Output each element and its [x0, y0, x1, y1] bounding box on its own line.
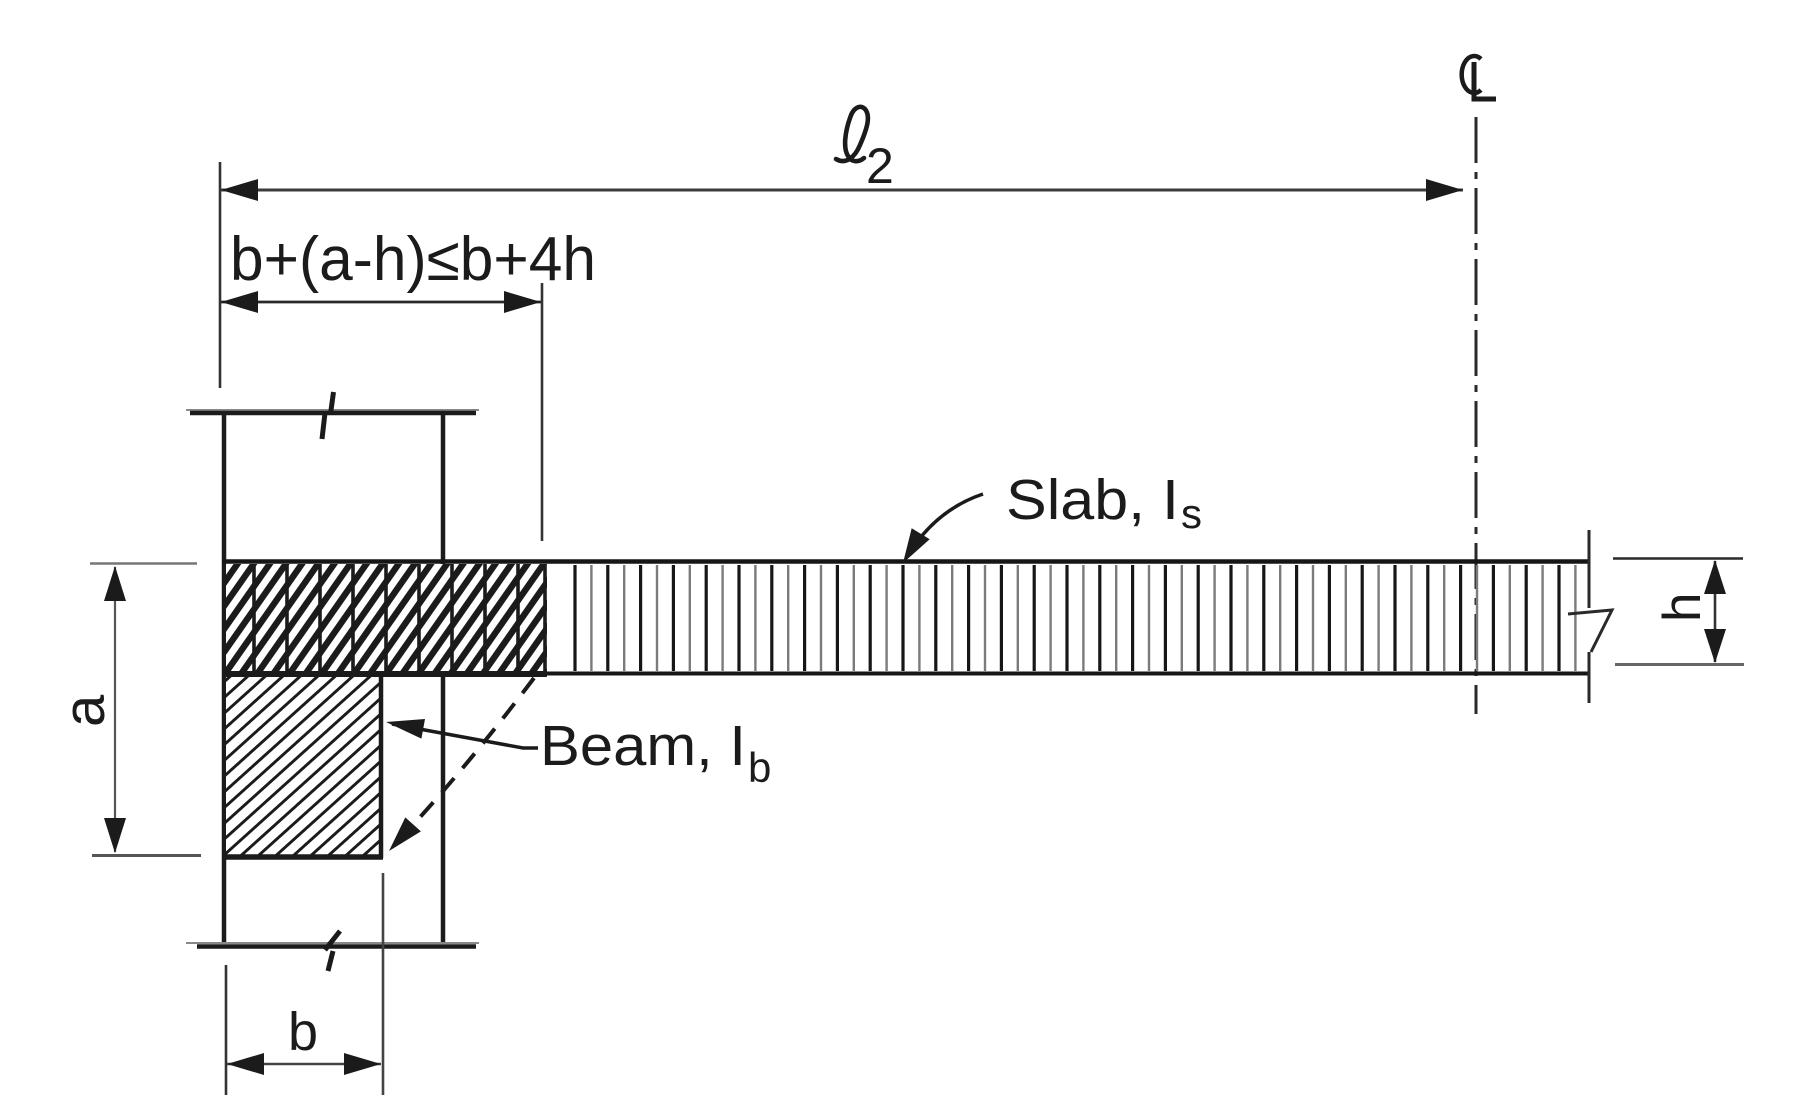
a top extension line: [90, 562, 197, 565]
arrowhead b left: [227, 1053, 264, 1075]
arrowhead h bottom: [1704, 629, 1726, 663]
slab end line with break: [1568, 530, 1612, 703]
slab leader curve: [906, 494, 983, 558]
beam flange hatched band (diagonal): [226, 564, 547, 672]
svg-text:s: s: [1181, 490, 1202, 537]
beam solid leader: [392, 724, 538, 748]
b right extension line: [382, 873, 385, 1095]
beam web hatched area: [226, 677, 379, 855]
arrowhead l2 left: [221, 179, 258, 201]
svg-text:b+(a-h)≤b+4h: b+(a-h)≤b+4h: [230, 225, 596, 294]
b left extension line: [225, 965, 228, 1095]
break mark on top cap: [322, 392, 334, 439]
svg-text:Slab, I: Slab, I: [1006, 468, 1179, 532]
beam web bottom edge: [222, 854, 383, 860]
svg-text:b: b: [288, 1002, 318, 1062]
column left edge: [222, 412, 227, 944]
beam leader arrowhead: [386, 719, 425, 739]
flange bottom thick line: [222, 671, 547, 677]
dimension line l2: [221, 189, 1463, 192]
extension line b+(a-h) right: [541, 283, 544, 541]
beam web right edge: [379, 672, 384, 858]
beam dashed leader: [399, 678, 534, 840]
svg-text:h: h: [1653, 593, 1712, 622]
slab bottom line thin part: [547, 672, 1589, 676]
svg-text:Beam, I: Beam, I: [540, 714, 746, 778]
column top cap line: [186, 409, 479, 411]
h bottom extension line: [1615, 663, 1744, 666]
slab leader arrowhead: [903, 528, 930, 563]
label l2 (script ell): [836, 107, 868, 161]
centerline symbol CL: [1462, 56, 1496, 99]
slab top line: [222, 559, 1589, 564]
arrowhead a bottom: [104, 818, 126, 853]
arrowhead b right: [344, 1053, 381, 1075]
arrowhead a top: [104, 566, 126, 601]
svg-text:b: b: [748, 744, 771, 791]
column bottom cap line: [186, 942, 479, 944]
slab hatched band (vertical lines): [575, 565, 1559, 671]
arrowhead b+(a-h) right: [504, 291, 541, 313]
centerline (dash-dot): [1475, 117, 1478, 714]
a bottom extension line: [92, 854, 201, 857]
arrowhead h top: [1704, 560, 1726, 594]
arrowhead b+(a-h) left: [221, 291, 258, 313]
a dimension line: [114, 567, 116, 852]
flange vertical dividers: [254, 564, 545, 672]
break mark on bottom cap: [325, 931, 340, 971]
h dimension line: [1714, 561, 1717, 662]
b dimension line: [227, 1063, 381, 1066]
extension line left (column face projection): [219, 162, 222, 388]
dimension line b+(a-h): [221, 301, 541, 304]
svg-text:a: a: [52, 694, 117, 727]
column right edge: [441, 412, 446, 944]
svg-text:2: 2: [866, 138, 894, 194]
slab hatch faint lines: [591, 565, 1575, 671]
h top extension line: [1613, 557, 1743, 560]
arrowhead l2 right: [1426, 179, 1463, 201]
beam dashed leader arrowhead: [389, 817, 421, 851]
